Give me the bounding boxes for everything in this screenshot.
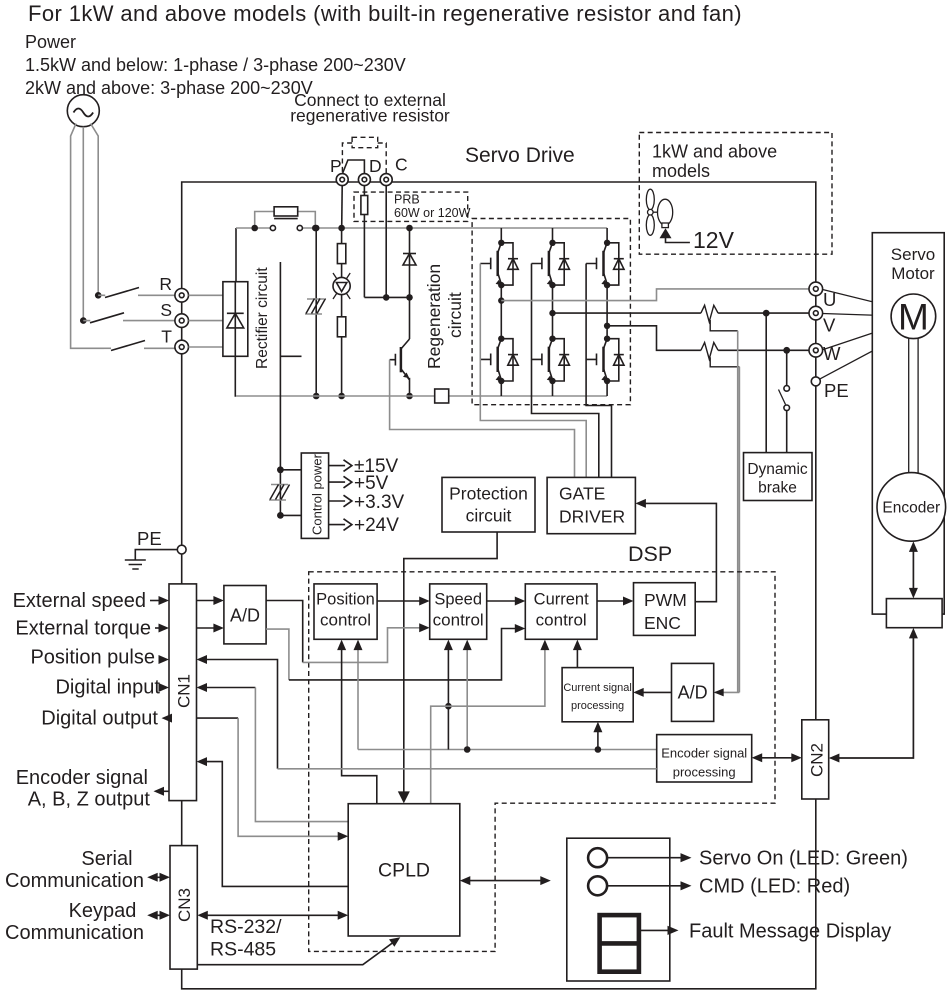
- svg-text:Servo: Servo: [891, 245, 935, 264]
- svg-text:12V: 12V: [693, 227, 735, 253]
- arrow speed to current: [487, 600, 523, 602]
- svg-text:CN3: CN3: [175, 888, 194, 922]
- encoder circle: [877, 473, 946, 542]
- wire CPLD to position control arrow1: [342, 643, 377, 804]
- brake switch S4: [779, 386, 790, 453]
- switch S2 (S phase): [80, 313, 175, 324]
- IGBT Q5 leg2 bottom: [532, 285, 570, 396]
- junction dot link-diode: [406, 294, 413, 301]
- current control box: [525, 584, 597, 639]
- wire D-C link: [364, 296, 409, 298]
- svg-text:control: control: [320, 611, 371, 630]
- servo drive enclosure box: [182, 182, 816, 989]
- svg-text:Position: Position: [316, 591, 375, 609]
- control power output plus3.3: [329, 492, 405, 513]
- LED servo on: [588, 848, 607, 867]
- CN1 to A/D arrow 2: [197, 627, 222, 629]
- svg-text:Control power: Control power: [310, 453, 325, 535]
- wire speed arrow1 from y706: [447, 643, 449, 750]
- svg-text:Encoder signal: Encoder signal: [661, 746, 747, 761]
- terminal D: [358, 174, 370, 186]
- junction dot V tap: [763, 310, 770, 317]
- wire D down through PRB: [363, 186, 365, 298]
- current sensor wire into A/D2: [715, 691, 739, 693]
- inverter top rail: [472, 227, 607, 229]
- gate driver box: [547, 477, 635, 533]
- fan dashed box 1kW models: [639, 133, 832, 255]
- svg-text:Communication: Communication: [5, 870, 144, 892]
- wire encoder bus to position control arrow2: [357, 643, 359, 750]
- svg-text:T: T: [161, 327, 172, 347]
- wire U phase: [501, 289, 809, 301]
- encoder feedback gray bus: [358, 749, 657, 751]
- wire encoder ABZ from CPLD: [200, 762, 349, 887]
- wire bus down to rectifier top: [235, 228, 237, 282]
- svg-text:R: R: [159, 274, 172, 294]
- seven segment display: [600, 915, 639, 972]
- svg-text:circuit: circuit: [466, 506, 512, 526]
- junction dot choke top: [313, 225, 320, 232]
- svg-text:A/D: A/D: [230, 606, 260, 626]
- control power box: [301, 453, 328, 538]
- svg-text:brake: brake: [758, 480, 797, 497]
- wire gate leg3 to gate driver: [586, 264, 611, 478]
- wire phase3 from source: [91, 124, 99, 294]
- encoder signal processing box: [657, 735, 752, 782]
- svg-text:PE: PE: [824, 380, 849, 401]
- junction dot speed2 on bus: [464, 746, 471, 753]
- svg-text:+5V: +5V: [354, 473, 389, 494]
- junction dot csp on bus: [595, 746, 602, 753]
- AC source G1: [67, 95, 99, 127]
- terminal C: [380, 174, 392, 186]
- current sensor zigzag V: [701, 305, 718, 322]
- wire V phase: [553, 312, 810, 314]
- svg-text:Dynamic: Dynamic: [747, 461, 808, 478]
- svg-text:DSP: DSP: [628, 542, 672, 566]
- svg-text:Servo On (LED: Green): Servo On (LED: Green): [699, 848, 908, 870]
- terminal V: [809, 306, 823, 320]
- svg-text:1.5kW and below: 1-phase / 3-p: 1.5kW and below: 1-phase / 3-phase 200~2…: [25, 55, 406, 75]
- junction dot bus-right: [312, 225, 319, 232]
- control power output plus24: [329, 515, 400, 536]
- PRB dashed box: [354, 192, 468, 221]
- dc minus bus (bottom): [236, 395, 607, 397]
- dc minus stub tick: [280, 355, 301, 357]
- svg-text:control: control: [433, 611, 484, 630]
- svg-text:For 1kW and above models (with: For 1kW and above models (with built-in …: [28, 1, 742, 26]
- svg-text:A, B, Z output: A, B, Z output: [28, 789, 151, 811]
- inrush bypass wire loop: [255, 212, 316, 229]
- wire S to rectifier: [189, 320, 223, 322]
- svg-text:Servo Drive: Servo Drive: [465, 144, 575, 167]
- junction dot control power bottom: [277, 512, 284, 519]
- dynamic brake box: [744, 453, 813, 501]
- control power output plus15: [329, 456, 399, 477]
- junction dot bus-left: [251, 225, 258, 232]
- junction dot control power top: [277, 466, 284, 473]
- svg-text:Digital output: Digital output: [41, 708, 158, 730]
- CN1 connector box: [169, 584, 197, 801]
- svg-text:Serial: Serial: [81, 848, 132, 870]
- current sensor wire V down: [737, 331, 739, 693]
- svg-text:CN1: CN1: [175, 674, 194, 708]
- wire digital input from CPLD: [200, 687, 256, 689]
- CN1 to A/D arrow 1: [197, 600, 222, 602]
- svg-text:Power: Power: [25, 32, 76, 52]
- junction dot surge bottom: [338, 393, 345, 400]
- svg-text:2kW and above: 3-phase 200~230: 2kW and above: 3-phase 200~230V: [25, 78, 313, 98]
- current sensor tap W: [710, 357, 739, 367]
- wire protection to CPLD: [404, 532, 497, 801]
- svg-text:Regeneration: Regeneration: [424, 264, 444, 369]
- LED indicator box: [567, 838, 670, 981]
- svg-text:regenerative resistor: regenerative resistor: [290, 106, 450, 126]
- servo motor box: [872, 233, 944, 614]
- A/D box left: [224, 586, 266, 644]
- CN3 to CPLD double arrow: [200, 914, 346, 916]
- svg-text:RS-232/: RS-232/: [210, 916, 282, 938]
- junction dot surge top: [338, 225, 345, 232]
- wire CN2 to encoder interface: [831, 631, 914, 759]
- CN2 connector box: [802, 720, 829, 799]
- regen IGBT Q7: [390, 339, 410, 396]
- svg-text:+3.3V: +3.3V: [354, 492, 405, 513]
- speed control box: [430, 584, 487, 639]
- svg-text:Motor: Motor: [891, 264, 935, 283]
- arrow bus to csp bottom: [597, 725, 599, 750]
- wire phase2 from source: [82, 127, 84, 318]
- PRB resistor: [361, 196, 368, 215]
- svg-text:Keypad: Keypad: [69, 900, 137, 922]
- svg-text:P: P: [330, 156, 342, 176]
- svg-text:CPLD: CPLD: [378, 860, 430, 882]
- control power output plus5: [329, 473, 389, 494]
- wire V node to dynamic brake: [765, 313, 767, 453]
- junction dot speed1: [445, 703, 452, 710]
- arrow position to speed: [377, 600, 427, 602]
- svg-text:Encoder: Encoder: [882, 500, 940, 517]
- svg-text:External speed: External speed: [13, 590, 146, 612]
- junction dot W tap: [783, 347, 790, 354]
- IGBT Q1 leg1 top: [480, 228, 518, 288]
- svg-text:V: V: [823, 315, 836, 336]
- svg-text:Digital input: Digital input: [55, 677, 160, 699]
- junction dot choke bottom: [313, 393, 320, 400]
- terminal S: [175, 314, 189, 328]
- svg-text:60W or 120W: 60W or 120W: [394, 206, 471, 220]
- svg-text:models: models: [652, 161, 710, 181]
- wire y706 CPLD line: [431, 643, 545, 804]
- wire RS232 to CPLD: [197, 939, 397, 965]
- arrow A/D2 to csp: [636, 691, 672, 693]
- arrow cmd label: [607, 885, 682, 887]
- svg-text:processing: processing: [673, 765, 736, 780]
- svg-text:D: D: [369, 156, 382, 176]
- wire P down to bus: [341, 186, 344, 228]
- relay contact blade K1: [274, 218, 298, 220]
- CPLD box: [348, 804, 460, 936]
- arrow fault label: [641, 929, 669, 931]
- svg-text:Current: Current: [534, 591, 589, 609]
- shunt resistor RS1: [435, 389, 449, 403]
- wire R to rectifier: [189, 294, 223, 296]
- svg-text:Position pulse: Position pulse: [30, 647, 155, 669]
- IGBT Q6 leg3 bottom: [586, 285, 624, 396]
- terminal W: [809, 344, 823, 358]
- wire phase1 from source: [71, 124, 104, 349]
- wire gate leg1 to gate driver: [480, 264, 586, 478]
- wire gate leg2 to gate driver: [532, 264, 599, 478]
- arrow csp to current control: [576, 643, 578, 668]
- IGBT Q3 leg3 top: [586, 228, 624, 288]
- svg-text:Current signal: Current signal: [563, 682, 631, 694]
- svg-text:CMD (LED: Red): CMD (LED: Red): [699, 876, 850, 898]
- svg-text:processing: processing: [571, 700, 624, 712]
- inverter dashed box: [472, 219, 630, 405]
- wire position pulse feedback: [200, 660, 278, 769]
- CN3 connector box: [170, 846, 197, 970]
- IGBT Q2 leg2 top: [532, 228, 570, 288]
- control power feed wire: [279, 262, 281, 515]
- core symbol slashes: [305, 299, 326, 315]
- terminal T: [175, 340, 189, 354]
- wire digital output to CPLD: [197, 717, 239, 719]
- current signal processing box: [562, 668, 633, 722]
- arrow servo on label: [607, 857, 682, 859]
- svg-text:PWM: PWM: [644, 590, 687, 610]
- svg-text:control: control: [536, 611, 587, 630]
- svg-text:External torque: External torque: [15, 618, 151, 640]
- core symbol at control power: [269, 485, 290, 501]
- current sensor wire W down: [738, 367, 740, 693]
- contact terminal circle left: [270, 225, 275, 230]
- jumper plate P-D: [343, 160, 365, 174]
- A/D box right: [672, 663, 714, 721]
- ESP to CN2 double arrow: [755, 757, 800, 759]
- junction dot V node: [549, 310, 555, 316]
- svg-text:+24V: +24V: [354, 515, 399, 536]
- wire surge branch: [341, 228, 343, 396]
- current sensor zigzag W: [701, 343, 718, 360]
- svg-text:PRB: PRB: [394, 193, 420, 207]
- terminal P: [336, 174, 348, 186]
- wire V to motor: [823, 314, 892, 316]
- svg-text:C: C: [395, 155, 408, 175]
- svg-text:Communication: Communication: [5, 922, 144, 944]
- protection circuit box: [442, 477, 535, 532]
- junction dot W node: [604, 323, 610, 329]
- DSP dashed boundary: [309, 572, 775, 952]
- svg-text:Encoder signal: Encoder signal: [16, 767, 148, 789]
- svg-text:RS-485: RS-485: [210, 939, 276, 961]
- switch S1 (R phase): [95, 288, 175, 299]
- motor shaft: [909, 338, 918, 473]
- wire PE to motor: [820, 335, 902, 379]
- regen diode D1 branch: [409, 228, 411, 339]
- CPLD to LED double arrow: [463, 880, 548, 882]
- dashed external regenerative resistor: [342, 137, 386, 173]
- arrow current to PWM: [597, 600, 631, 602]
- svg-text:Fault Message Display: Fault Message Display: [689, 921, 891, 943]
- PE earth terminal: [177, 545, 186, 554]
- wire T to rectifier: [189, 346, 223, 348]
- wire regen gate to gate driver: [390, 360, 575, 478]
- wire W to motor: [823, 326, 895, 350]
- encoder interface box: [886, 599, 942, 628]
- encoder link double arrow: [909, 541, 918, 598]
- terminal PE: [811, 377, 820, 386]
- wire A/D out2 to current control: [266, 629, 289, 680]
- svg-text:GATE: GATE: [559, 484, 605, 504]
- diode D1: [403, 254, 416, 266]
- wire C down: [385, 186, 387, 298]
- svg-text:Protection: Protection: [449, 484, 528, 504]
- wire W phase: [607, 326, 809, 351]
- arrow current control bottom1: [540, 640, 549, 651]
- IGBT Q4 leg1 bottom: [480, 285, 518, 396]
- junction dot regen top: [406, 225, 413, 232]
- LED cmd: [588, 876, 607, 895]
- inrush resistor R1: [274, 207, 298, 216]
- dc plus bus (top): [236, 227, 472, 229]
- svg-text:PE: PE: [137, 528, 162, 549]
- resistor R2: [337, 244, 345, 264]
- terminal R: [175, 289, 189, 303]
- position control box: [314, 584, 377, 639]
- rectifier BR1: [223, 282, 248, 357]
- wire PWM to gate driver: [638, 503, 717, 601]
- wires into control power box: [280, 470, 301, 516]
- surge absorber RV1: [333, 273, 350, 299]
- wire center leg with core (choke): [315, 228, 317, 396]
- svg-text:CN2: CN2: [808, 743, 827, 777]
- junction dot C link: [383, 294, 390, 301]
- wire rectifier bottom to dc-minus bus: [234, 356, 237, 396]
- svg-text:M: M: [898, 297, 929, 338]
- terminal U: [809, 282, 823, 296]
- junction dot regen emitter-bus: [406, 393, 413, 400]
- svg-text:1kW and above: 1kW and above: [652, 142, 777, 162]
- fan motor symbol: [646, 189, 690, 242]
- wire A/D out to speed control: [266, 601, 303, 663]
- junction dot U node: [498, 297, 504, 303]
- svg-text:S: S: [160, 300, 172, 320]
- ground symbol: [125, 550, 178, 569]
- motor M circle: [891, 294, 936, 339]
- svg-text:DRIVER: DRIVER: [559, 507, 625, 527]
- svg-text:Rectifier circuit: Rectifier circuit: [254, 267, 271, 369]
- current sensor tap V: [710, 320, 738, 331]
- switch S3 (T phase): [104, 341, 175, 351]
- svg-text:ENC: ENC: [644, 613, 681, 633]
- wire W node to brake switch: [786, 350, 788, 385]
- resistor R3: [337, 317, 345, 337]
- svg-text:Speed: Speed: [434, 591, 482, 609]
- svg-text:circuit: circuit: [445, 292, 465, 338]
- PWM ENC box: [634, 583, 696, 636]
- svg-text:A/D: A/D: [678, 683, 708, 703]
- contact terminal circle right: [297, 225, 302, 230]
- wire speed arrow2 from bus: [466, 643, 468, 750]
- wire U to motor: [823, 290, 894, 308]
